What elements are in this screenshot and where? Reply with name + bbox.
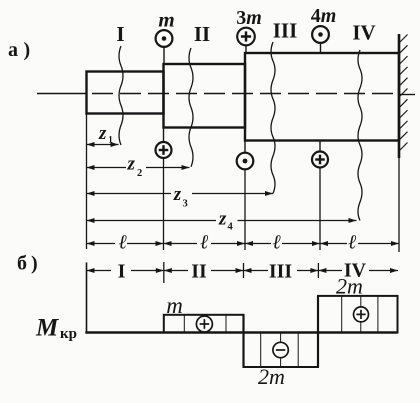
- svg-text:М: М: [35, 315, 59, 342]
- svg-text:z: z: [218, 209, 227, 230]
- svg-text:a): a): [8, 39, 30, 61]
- svg-text:ℓ: ℓ: [200, 232, 209, 254]
- svg-text:IV: IV: [352, 21, 375, 45]
- svg-text:2m: 2m: [258, 364, 285, 389]
- svg-text:2m: 2m: [336, 274, 363, 299]
- svg-text:II: II: [191, 261, 207, 283]
- svg-text:z: z: [127, 154, 136, 175]
- svg-text:3m: 3m: [236, 7, 262, 29]
- svg-text:III: III: [273, 19, 298, 43]
- svg-text:3: 3: [183, 199, 188, 210]
- svg-text:4: 4: [228, 222, 234, 233]
- svg-text:ℓ: ℓ: [348, 232, 357, 254]
- svg-text:m: m: [158, 8, 174, 32]
- svg-text:2: 2: [137, 168, 142, 179]
- svg-text:m: m: [166, 293, 183, 318]
- svg-text:ℓ: ℓ: [273, 232, 282, 254]
- svg-text:4m: 4m: [311, 5, 337, 27]
- svg-text:III: III: [269, 261, 293, 283]
- svg-text:I: I: [118, 261, 126, 283]
- svg-text:II: II: [194, 22, 210, 46]
- svg-text:ℓ: ℓ: [119, 232, 128, 254]
- svg-text:кр: кр: [60, 326, 77, 342]
- svg-text:б): б): [17, 253, 38, 275]
- svg-text:z: z: [173, 184, 182, 205]
- svg-text:1: 1: [108, 135, 113, 145]
- svg-text:I: I: [116, 22, 124, 46]
- svg-text:z: z: [98, 123, 107, 144]
